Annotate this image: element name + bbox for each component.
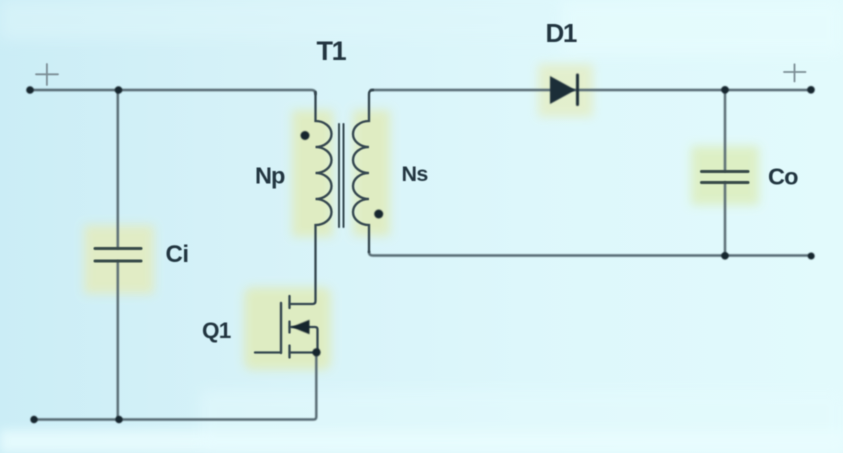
- svg-text:D1: D1: [546, 18, 577, 48]
- svg-text:Np: Np: [255, 163, 285, 189]
- svg-text:Q1: Q1: [202, 318, 231, 343]
- svg-text:Co: Co: [768, 164, 798, 190]
- svg-text:T1: T1: [317, 36, 347, 66]
- svg-text:Ns: Ns: [402, 162, 429, 186]
- svg-text:Ci: Ci: [166, 241, 189, 268]
